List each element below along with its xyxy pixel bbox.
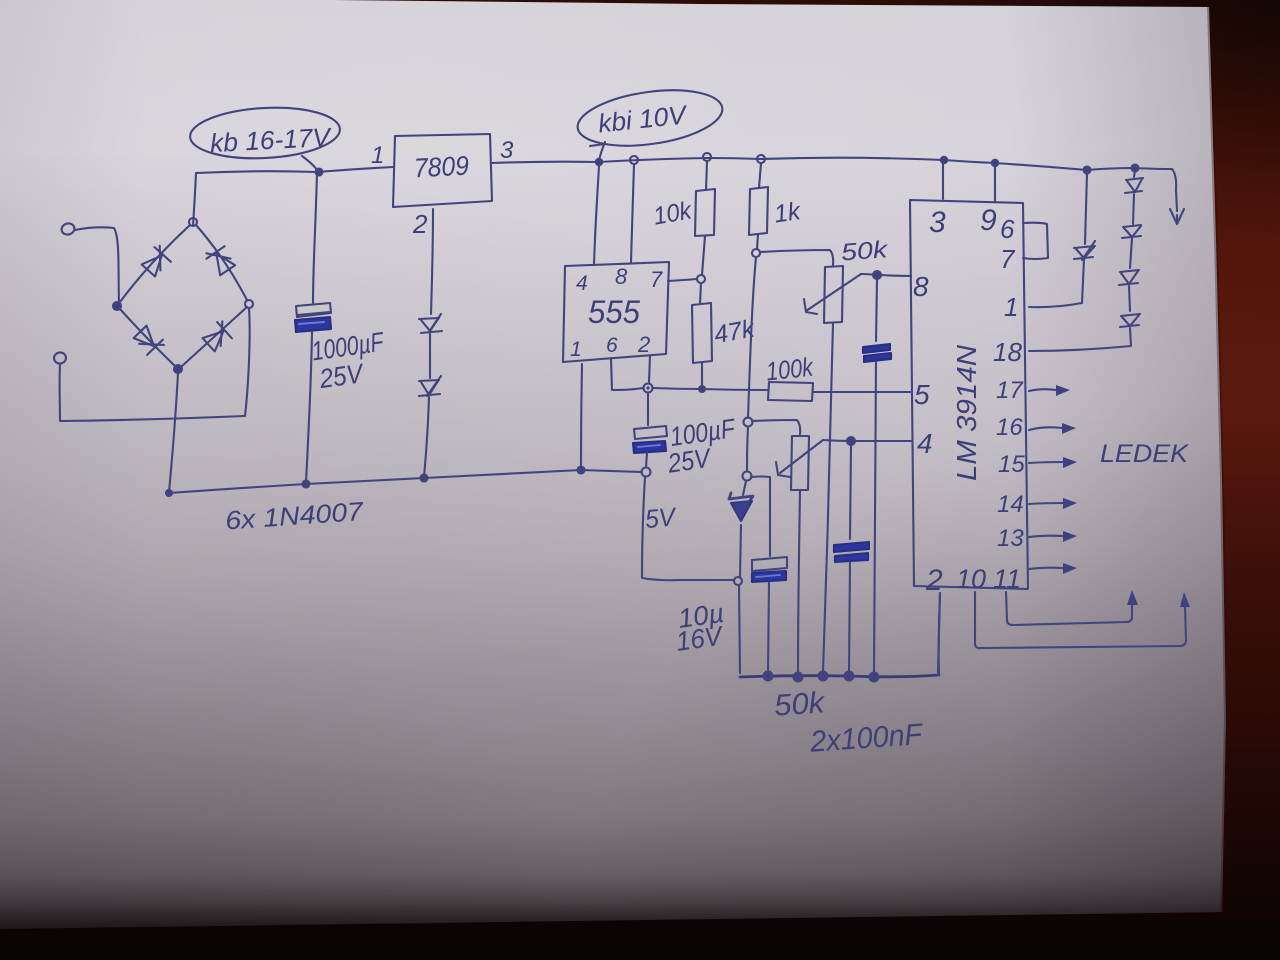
capacitor C5 100nF bottom column bbox=[850, 445, 851, 539]
wire wiper to pin8 bbox=[861, 274, 877, 275]
LED D10 bbox=[1119, 270, 1139, 285]
node bridge right bbox=[245, 300, 253, 308]
node ring pin7/47k bbox=[697, 275, 705, 283]
wire pin2 to ground bbox=[938, 593, 940, 672]
junction ground rail pin2 bbox=[938, 671, 939, 675]
svg-text:25V: 25V bbox=[665, 443, 714, 479]
wire J1 to bridge left node bbox=[75, 227, 119, 303]
node ring zener bottom bbox=[734, 577, 742, 585]
junction dot capB bus bbox=[847, 437, 855, 445]
node ring pin8 rail bbox=[630, 156, 638, 164]
wire LED column top bbox=[1134, 171, 1135, 177]
node bridge bottom bbox=[174, 365, 182, 373]
arrow pin14 bbox=[1029, 503, 1063, 504]
LED D12 bbox=[1120, 314, 1140, 327]
wire bridge left-top side bbox=[120, 225, 190, 302]
wire bridge right node down bbox=[245, 308, 250, 416]
wire 7809 pin2 down bbox=[431, 209, 433, 314]
timer U2 555 box bbox=[563, 262, 669, 362]
node ring 1k rail bbox=[757, 155, 765, 163]
node ring 10k rail bbox=[703, 153, 711, 161]
wire zener junction to bottom rail bbox=[739, 585, 740, 673]
junction dot pin9 bbox=[992, 160, 998, 166]
P2 wiper arrow bbox=[780, 440, 823, 473]
junction dot rail left end bbox=[166, 490, 172, 496]
junction dot bbox=[421, 475, 428, 482]
node bridge top bbox=[189, 218, 197, 226]
zener diode D11 5V bbox=[729, 493, 753, 502]
diode D4 bridge bottom-right bbox=[203, 331, 224, 351]
node ring 100uF ground bbox=[642, 468, 651, 477]
paper right edge shadow bbox=[1209, 7, 1226, 912]
svg-text:1: 1 bbox=[570, 338, 582, 361]
svg-text:18: 18 bbox=[993, 337, 1022, 367]
svg-text:7: 7 bbox=[650, 267, 663, 292]
wire bridge top-right side bbox=[196, 225, 247, 300]
terminal J2 bbox=[53, 352, 67, 365]
capacitor C4 100nF top column bbox=[876, 279, 877, 341]
junction dot P2 bbox=[794, 673, 803, 682]
junction dot pin3 bbox=[941, 157, 947, 163]
svg-text:8: 8 bbox=[615, 264, 628, 289]
diode D2 bridge top-right bbox=[216, 254, 235, 276]
wire pin9 up bbox=[994, 167, 996, 202]
svg-text:17: 17 bbox=[996, 377, 1024, 404]
arrow pin11 side bbox=[1029, 568, 1063, 569]
svg-text:10: 10 bbox=[956, 564, 986, 594]
wire 555 pin4 bbox=[594, 166, 599, 265]
svg-text:7: 7 bbox=[1000, 244, 1016, 274]
wire ground rail up to pin2 bbox=[939, 593, 940, 675]
junction dot 47k bus bbox=[699, 386, 705, 392]
svg-text:14: 14 bbox=[997, 491, 1024, 518]
wire diode column top bbox=[1085, 173, 1087, 244]
wire 10k bottom bbox=[702, 236, 705, 275]
resistor R4 100k bbox=[768, 382, 813, 401]
wire 1k top bbox=[759, 163, 761, 188]
junction dot kbi/pin4 bbox=[596, 159, 602, 165]
wire top rail left section bbox=[196, 167, 393, 173]
svg-text:9: 9 bbox=[980, 204, 997, 237]
wire 1k bottom bbox=[757, 234, 758, 249]
node ring pot2 feed bbox=[744, 418, 753, 427]
wire 555 pin8 bbox=[631, 164, 634, 262]
IC U3 LM3914N box bbox=[910, 200, 1028, 589]
junction dot pin1 ground bbox=[578, 467, 585, 474]
wire C1 top bbox=[313, 174, 317, 303]
svg-text:555: 555 bbox=[588, 294, 640, 330]
diode D6 bbox=[419, 376, 441, 396]
wire 555 pin7 stub bbox=[668, 279, 697, 281]
arrow pin16 bbox=[1029, 427, 1062, 430]
svg-text:5V: 5V bbox=[644, 501, 679, 534]
capacitor C2 100uF 25V bbox=[634, 426, 667, 439]
wire 10u top stub bbox=[751, 477, 770, 557]
capacitor C3 10u 16V bbox=[752, 557, 787, 571]
wire between diodes bbox=[429, 334, 431, 378]
jumper pin6 to pin7 bbox=[1023, 223, 1048, 259]
wire bus pin4 bbox=[823, 440, 912, 441]
svg-text:6: 6 bbox=[606, 334, 618, 357]
oval label kb 16-17V bbox=[189, 104, 341, 162]
wire diode to pin1 bbox=[1029, 259, 1084, 307]
svg-text:11: 11 bbox=[993, 564, 1021, 594]
node bridge left bbox=[113, 302, 121, 310]
junction dot P1 bbox=[819, 672, 828, 681]
arrow pin13 bbox=[1029, 536, 1063, 537]
wire J2 down and right bbox=[60, 364, 244, 421]
wire 555 pin1 down bbox=[581, 364, 582, 466]
node ring zener top bbox=[743, 472, 752, 481]
junction dot capB bbox=[845, 672, 854, 681]
wire 100uF top bbox=[647, 393, 649, 425]
potentiometer P2 50k bbox=[791, 436, 809, 490]
junction dot C1 top bbox=[316, 169, 323, 176]
diode D7 bbox=[1074, 241, 1095, 260]
wire pin10 down right up-arrow bbox=[975, 592, 1186, 648]
node ring pin2/pin6 junction bbox=[644, 384, 653, 393]
svg-text:4: 4 bbox=[576, 272, 588, 295]
wire D6 to ground rail bbox=[424, 397, 429, 477]
svg-text:1: 1 bbox=[1004, 292, 1018, 322]
LED D8 bbox=[1125, 178, 1143, 193]
svg-text:3: 3 bbox=[500, 137, 514, 164]
arrow pin15 bbox=[1029, 462, 1063, 463]
wire bus to pin5 left part bbox=[653, 388, 768, 390]
svg-text:100k: 100k bbox=[764, 352, 816, 387]
junction dot C1 bottom bbox=[303, 481, 310, 488]
svg-text:2: 2 bbox=[637, 332, 650, 357]
arrow pin17 bbox=[1029, 389, 1056, 391]
node ring 1k/50k bbox=[752, 249, 760, 257]
LED D9 bbox=[1122, 225, 1141, 238]
wire top right corner down arrow bbox=[1172, 169, 1177, 211]
wire zener top stub bbox=[743, 481, 746, 495]
svg-text:6: 6 bbox=[1000, 214, 1015, 244]
wire bridge top node to top rail bbox=[193, 173, 196, 226]
svg-text:7809: 7809 bbox=[413, 151, 469, 184]
svg-text:50k: 50k bbox=[773, 686, 827, 723]
wire ground rail bottom (2x100nF rail) bbox=[740, 675, 939, 677]
svg-text:2: 2 bbox=[412, 209, 428, 239]
wire bridge bottom-right side bbox=[182, 307, 247, 366]
wire P2 bottom to ground bbox=[798, 491, 800, 674]
junction dot wiper/capA bbox=[873, 271, 881, 279]
wire bridge left-bottom side bbox=[120, 309, 175, 366]
wire P1 bottom to ground bbox=[823, 323, 833, 672]
svg-text:kb 16-17V: kb 16-17V bbox=[209, 122, 333, 158]
svg-text:1: 1 bbox=[371, 142, 384, 169]
junction dot 10u bbox=[764, 672, 773, 681]
wire pin3 up bbox=[942, 164, 944, 199]
resistor R3 47k bbox=[692, 303, 712, 363]
wire 100uF bottom bbox=[646, 453, 647, 467]
regulator U1 7809 bbox=[393, 134, 492, 207]
junction dot capA bbox=[870, 673, 879, 682]
wire bbox=[1130, 238, 1132, 268]
wire down to zener junction bbox=[747, 427, 748, 471]
potentiometer P1 50k bbox=[824, 266, 843, 323]
wire C1 bottom bbox=[306, 332, 312, 483]
svg-text:LEDEK: LEDEK bbox=[1100, 440, 1189, 468]
svg-text:50k: 50k bbox=[840, 236, 890, 266]
wire 47k bottom bbox=[701, 363, 703, 385]
wire 47k top bbox=[700, 283, 701, 304]
svg-text:16: 16 bbox=[996, 414, 1023, 441]
wire ground jog down-right bbox=[642, 477, 734, 580]
resistor R2 1k bbox=[749, 187, 768, 235]
capacitor C1 1000uF 25V bbox=[296, 303, 331, 317]
wire 555 pin6 stub bbox=[611, 358, 643, 390]
diode D1 bridge top-left bbox=[142, 256, 162, 277]
svg-text:4: 4 bbox=[917, 428, 933, 459]
P1 wiper arrow bbox=[806, 274, 861, 311]
wire bus 100k to pin5 bbox=[813, 391, 911, 393]
column 1k to wiper junction bbox=[748, 257, 756, 418]
svg-text:5: 5 bbox=[914, 379, 930, 410]
diode D5 bbox=[419, 314, 442, 333]
resistor R1 10k bbox=[695, 189, 715, 236]
wire bridge bottom to ground rail bbox=[169, 373, 178, 492]
wire bbox=[1129, 286, 1130, 311]
svg-text:3: 3 bbox=[929, 206, 946, 239]
svg-text:8: 8 bbox=[913, 271, 929, 302]
wire 50k pot top feed bbox=[760, 250, 833, 265]
wire 10k top bbox=[706, 161, 707, 190]
junction dot LED column bbox=[1132, 165, 1139, 172]
wire LED chain to pin18 bbox=[1029, 328, 1131, 351]
terminal J1 bbox=[60, 222, 75, 236]
wire ground rail lower-left bbox=[169, 470, 642, 493]
svg-text:15: 15 bbox=[998, 451, 1025, 478]
svg-text:LM 3914N: LM 3914N bbox=[951, 344, 982, 481]
wire bbox=[1133, 194, 1134, 224]
wire top rail right section bbox=[492, 158, 1172, 170]
wire to pot2 top bbox=[752, 420, 800, 434]
svg-text:25V: 25V bbox=[317, 358, 367, 394]
junction dot diode column bbox=[1084, 167, 1091, 174]
svg-text:13: 13 bbox=[997, 525, 1024, 552]
oval label kbi 10V bbox=[574, 82, 726, 154]
diode D3 bridge bottom-left bbox=[134, 326, 154, 347]
wire 555 pin2 down bbox=[649, 356, 650, 382]
wire pin11 down right up-arrow bbox=[1006, 592, 1132, 625]
